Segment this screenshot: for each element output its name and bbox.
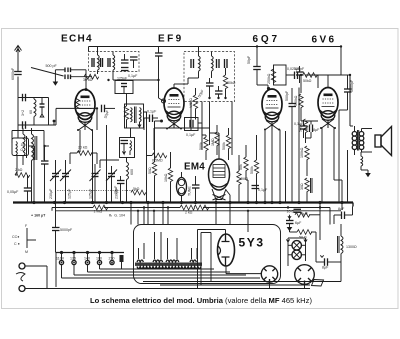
svg-text:0,1µF: 0,1µF <box>258 188 268 192</box>
6V6 plate wire to transformer <box>305 75 350 126</box>
bottom heater wires <box>62 269 342 285</box>
lamp wires <box>286 238 307 266</box>
6Q7 stage resistor 1M mid <box>211 125 219 155</box>
junction dots misc <box>43 45 351 147</box>
electrolytic 8uF bottom <box>316 255 341 281</box>
6Q7 plate resistor 500k <box>250 135 259 203</box>
tube EF9 <box>162 88 185 130</box>
svg-text:1 MΩ: 1 MΩ <box>94 210 103 214</box>
6Q7 stage resistor 500k left <box>199 135 208 160</box>
capacitor 6000pF antenna <box>11 67 22 80</box>
selector plug <box>120 255 124 262</box>
svg-text:6000pF: 6000pF <box>11 67 15 80</box>
tuning indicator lamp <box>177 172 192 203</box>
transformer primary top leads <box>350 75 353 126</box>
svg-text:5Y3: 5Y3 <box>239 236 265 250</box>
svg-text:30kΩ: 30kΩ <box>227 81 236 85</box>
resistor 30ohm right <box>300 178 309 203</box>
svg-text:125µF: 125µF <box>68 188 72 199</box>
resistor 100k right <box>300 146 309 176</box>
svg-text:500k: 500k <box>222 142 226 150</box>
svg-text:2 kΩ: 2 kΩ <box>15 168 23 172</box>
svg-text:CC●: CC● <box>12 235 19 239</box>
top HT line <box>89 47 342 76</box>
svg-text:EM4: EM4 <box>184 162 205 173</box>
cap 0.1uF right mid <box>294 121 308 138</box>
power transformer secondary windings <box>137 267 201 269</box>
pickup terminals CC C <box>12 224 36 254</box>
svg-text:0,1µF: 0,1µF <box>128 74 138 78</box>
6Q7 grid leak 250k <box>267 65 286 85</box>
svg-text:2 kΩ: 2 kΩ <box>185 211 193 215</box>
svg-text:8µF: 8µF <box>313 128 320 132</box>
oscillator coil pair <box>125 104 147 203</box>
AVC dotted line <box>55 190 138 192</box>
EM4 wires down <box>210 133 231 203</box>
tube socket 1 <box>261 266 277 289</box>
svg-text:0,1µF: 0,1µF <box>147 110 157 114</box>
tube 5Y3 <box>218 234 235 266</box>
svg-text:30 kΩ: 30 kΩ <box>83 78 93 82</box>
svg-text:10 Ω: 10 Ω <box>287 210 295 214</box>
svg-text:0,1µF: 0,1µF <box>294 122 304 126</box>
antenna input top wire <box>18 94 49 116</box>
tube 6V6 <box>318 88 338 130</box>
EF9 screen resistor <box>155 47 163 81</box>
resistor 5k horizontal mid <box>131 187 146 195</box>
svg-text:250kΩ: 250kΩ <box>267 73 271 84</box>
resistor 10k vertical <box>164 152 173 203</box>
wires 6Q7 stage down <box>246 88 299 203</box>
IF transformer 1 dashed box <box>89 52 140 72</box>
antenna <box>15 46 22 139</box>
cap 250pF mid <box>120 138 135 158</box>
IF2 diode load resistor 30k <box>223 68 235 98</box>
mains wires <box>25 266 310 289</box>
svg-text:50kΩ: 50kΩ <box>303 79 312 83</box>
svg-text:500 pF: 500 pF <box>46 64 58 68</box>
wires left input section <box>15 146 34 203</box>
cap 5000pF mains <box>52 203 73 253</box>
mains plug prongs <box>16 263 25 292</box>
wires below bus into chassis <box>131 203 342 241</box>
cap near EM4 <box>192 176 200 203</box>
svg-text:5000pF: 5000pF <box>350 79 354 92</box>
voltage terminals <box>59 254 114 265</box>
electrolytic 6uF lamps <box>286 215 302 232</box>
svg-text:ECH4: ECH4 <box>61 34 93 45</box>
svg-text:500k: 500k <box>250 166 254 174</box>
voltage labels <box>56 257 115 261</box>
IF2 detector caps <box>197 78 222 98</box>
6V6 grid wire <box>301 120 318 122</box>
osc coil column A <box>23 128 27 165</box>
svg-text:5000pF: 5000pF <box>60 228 73 232</box>
svg-text:500kΩ: 500kΩ <box>294 95 298 106</box>
AVC wires left <box>12 131 44 161</box>
svg-text:25µF: 25µF <box>114 185 118 194</box>
cap 0.025uF coupling <box>286 67 318 93</box>
field coil 1300ohm <box>338 224 357 262</box>
voice coil <box>361 152 371 177</box>
svg-text:8µF: 8µF <box>338 207 345 211</box>
svg-text:EF9: EF9 <box>158 34 184 45</box>
IF1 secondary winding <box>108 52 115 81</box>
svg-text:50Ω: 50Ω <box>148 167 152 174</box>
tuning gang section 3 <box>89 164 101 203</box>
output transformer <box>348 126 373 203</box>
transformer top leads <box>139 232 198 259</box>
EF9 plate wire <box>174 78 188 88</box>
main HT bus <box>13 201 353 207</box>
svg-text:230µF: 230µF <box>49 188 53 199</box>
cap 0.1uF EF9 right <box>185 118 203 151</box>
IF1 primary winding <box>92 47 103 75</box>
selector drop wires <box>62 262 122 278</box>
resistor 10ohm <box>287 210 321 218</box>
chassis rounded box <box>134 225 281 284</box>
svg-text:6Q7: 6Q7 <box>253 34 280 45</box>
ground below trimmer <box>53 70 59 86</box>
svg-text:5kΩ: 5kΩ <box>133 187 140 191</box>
osc coil column B <box>32 128 37 203</box>
svg-text:0,05µF: 0,05µF <box>7 190 19 194</box>
resistor 1M inline <box>93 205 108 213</box>
resistor 2k left <box>15 168 30 177</box>
svg-text:125µF: 125µF <box>89 188 93 199</box>
IF2 primary winding <box>188 47 200 79</box>
6Q7 cathode resistor 50k <box>239 145 248 180</box>
svg-text:600: 600 <box>130 169 134 175</box>
svg-text:20 kΩ: 20 kΩ <box>78 146 88 150</box>
cap 5uF return line <box>294 209 309 216</box>
svg-text:8µF: 8µF <box>322 266 329 270</box>
caps 125pF pair EF9 grid <box>121 54 138 78</box>
svg-text:500k: 500k <box>199 142 203 150</box>
svg-text:100kΩ: 100kΩ <box>300 147 304 158</box>
tuning gang section 4 <box>106 166 119 203</box>
electrolytic 8uF top <box>334 207 353 225</box>
choke core lines <box>311 178 313 193</box>
tube EM4 <box>209 150 230 200</box>
svg-text:50 Ω: 50 Ω <box>299 236 307 240</box>
EM4 grid resistor 2M <box>237 155 249 203</box>
cap 125pF top right <box>294 66 305 83</box>
resistor 6k right of EF9 <box>189 88 198 120</box>
resistor 2k inline <box>180 205 209 214</box>
svg-text:1MΩ: 1MΩ <box>211 138 215 146</box>
EF9 cathode dot <box>155 120 164 151</box>
capacitor 0.05uF left <box>7 188 31 194</box>
oscillator resistor 30k vertical <box>124 94 128 129</box>
ECH4 plate decoupling box <box>115 77 133 94</box>
tube socket 2 <box>295 265 324 289</box>
wires ECH4 stage down <box>77 108 107 202</box>
resistor 30k under IF1 <box>83 74 99 82</box>
trimmer 500pF <box>31 64 92 79</box>
cap 0.1uF 6Q7 plate <box>252 186 269 193</box>
svg-text:60: 60 <box>29 110 33 114</box>
cap 5000pF 6V6 <box>339 75 354 110</box>
padder cap mid <box>40 98 45 118</box>
tuning gang section 1 <box>49 160 61 203</box>
svg-text:Lo schema elettrico del mod. U: Lo schema elettrico del mod. Umbria (val… <box>90 296 312 305</box>
IF2 secondary winding <box>212 52 228 79</box>
EF9 grid wire from IF1 <box>113 80 164 101</box>
ECH4 grid wire <box>85 70 88 91</box>
svg-text:110V: 110V <box>56 257 65 261</box>
svg-text:0,5MΩ: 0,5MΩ <box>152 159 163 163</box>
svg-text:+ 160 µT: + 160 µT <box>31 214 46 218</box>
svg-text:1300Ω: 1300Ω <box>346 245 357 249</box>
6Q7 grid cap 50pF <box>247 47 270 91</box>
svg-text:TUNE: TUNE <box>188 186 192 196</box>
tube 6Q7 <box>262 89 282 131</box>
cap 10000pF mid-left <box>114 176 125 203</box>
svg-text:C ●: C ● <box>14 242 20 246</box>
svg-text:℞ G. 104: ℞ G. 104 <box>109 214 125 218</box>
svg-text:3+2: 3+2 <box>21 110 25 116</box>
5Y3 plate wires <box>198 230 226 289</box>
antenna coil 60 <box>29 98 36 126</box>
right leg of antenna circuit <box>18 98 56 129</box>
ECH4 cathode line across <box>56 108 97 125</box>
wave-trap box 1k <box>12 138 29 156</box>
svg-text:10kΩ: 10kΩ <box>164 173 168 182</box>
IF transformer 2 dashed box <box>184 52 235 102</box>
resistor 50ohm lamps <box>290 230 317 262</box>
resistor 500k mid <box>222 128 231 160</box>
6V6 grid resistor 500k <box>294 94 303 121</box>
wires below IF2 <box>191 102 232 156</box>
power transformer primary windings <box>137 260 196 262</box>
svg-text:50pF: 50pF <box>247 55 251 64</box>
voltage selector bus <box>56 251 124 287</box>
5Y3 filament wires <box>226 266 261 274</box>
return wire below bus <box>52 208 341 225</box>
volume pot 0.5M <box>147 153 167 162</box>
AVC line <box>154 128 210 150</box>
svg-text:50k: 50k <box>239 164 243 170</box>
svg-text:M: M <box>25 250 28 254</box>
svg-text:6V6: 6V6 <box>312 35 337 46</box>
capacitor 50pF osc <box>102 105 116 119</box>
EF9 stage coil 600 <box>100 158 134 203</box>
wires 6V6 stage down <box>322 110 342 203</box>
power transformer core <box>135 263 202 266</box>
resistor 20k mid-left <box>70 146 97 165</box>
6V6 cathode resistor 500k <box>299 119 321 143</box>
6V6 plate top wire <box>327 75 329 88</box>
dial lamp 2 <box>292 250 301 259</box>
electrolytic 25uF mid <box>41 146 49 203</box>
resistor 50ohm EF9 cathode <box>148 150 157 203</box>
tuning gang section 2 <box>60 160 72 203</box>
tube ECH4 <box>75 90 95 132</box>
svg-text:6µF: 6µF <box>295 221 302 225</box>
svg-text:0,1µF: 0,1µF <box>186 133 196 137</box>
dial lamp 1 <box>292 241 301 250</box>
svg-text:125: 125 <box>70 257 76 261</box>
svg-text:30Ω: 30Ω <box>300 183 304 190</box>
cap 0.1uF EF9 cathode <box>144 110 158 131</box>
speaker <box>375 127 392 156</box>
svg-text:500pF: 500pF <box>285 90 289 101</box>
